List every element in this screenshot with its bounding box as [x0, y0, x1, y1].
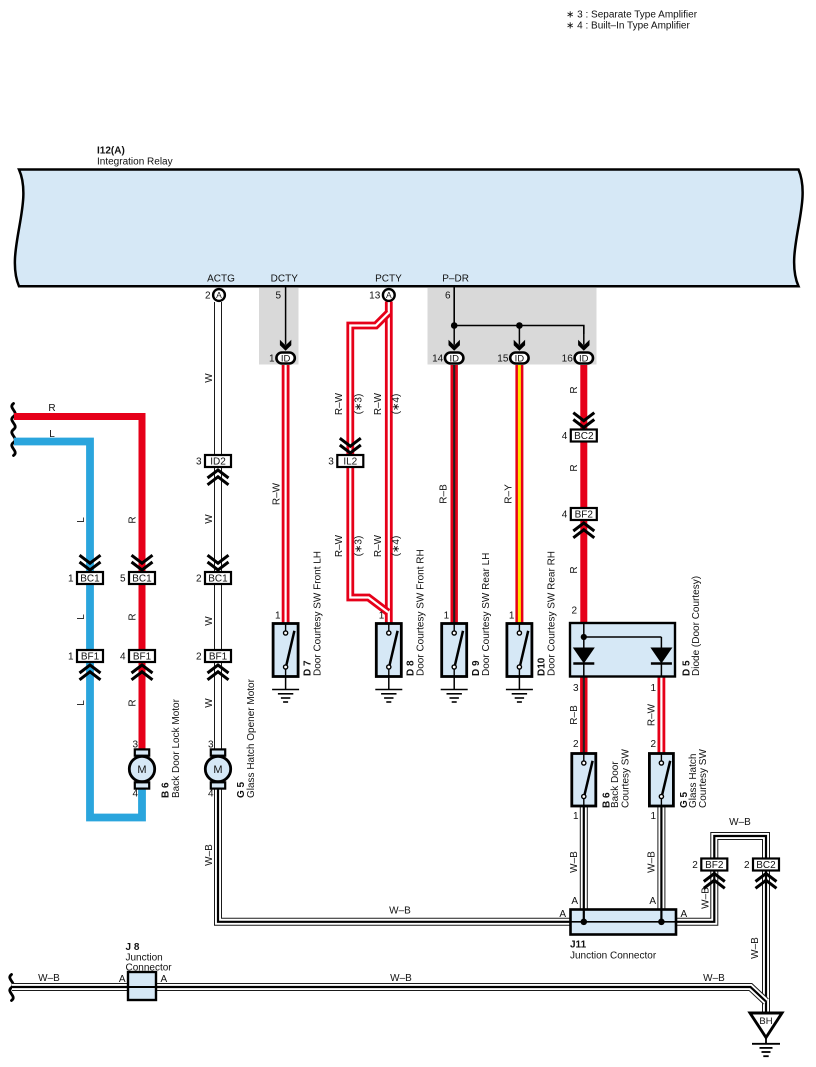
svg-text:W–B: W–B	[701, 887, 712, 909]
arrow into ID pin 16	[578, 326, 589, 351]
svg-text:L: L	[76, 614, 87, 620]
chevron above IL2	[340, 438, 361, 453]
svg-text:R–W: R–W	[334, 534, 345, 557]
svg-text:(∗3): (∗3)	[354, 394, 365, 415]
svg-text:16: 16	[562, 354, 574, 365]
shade box P-DR	[428, 288, 597, 365]
connector BC2 pin 2 (bottom)	[744, 859, 779, 872]
svg-text:BF1: BF1	[81, 652, 100, 663]
svg-text:A: A	[571, 896, 578, 907]
wire R-Y: ID pin 15 to door courtesy SW rear RH	[515, 365, 523, 624]
svg-text:M: M	[137, 764, 146, 776]
svg-text:∗ 3 : Separate Type Amplifier: ∗ 3 : Separate Type Amplifier	[566, 10, 698, 21]
wire W-B: bottom run through J8 to BH ground	[12, 987, 766, 1002]
svg-text:W–B: W–B	[647, 851, 658, 873]
svg-text:W: W	[204, 698, 215, 708]
svg-text:R: R	[48, 403, 55, 414]
svg-text:Door Courtesy SW Front RH: Door Courtesy SW Front RH	[416, 549, 427, 676]
svg-text:1: 1	[275, 611, 281, 622]
svg-text:1: 1	[68, 574, 74, 585]
svg-text:R–W: R–W	[373, 392, 384, 415]
svg-text:A: A	[161, 974, 168, 985]
wire: P-DR pin 6 distribution inside shade box	[454, 288, 584, 335]
svg-text:15: 15	[497, 354, 509, 365]
svg-text:W–B: W–B	[703, 973, 725, 984]
shade box DCTY	[259, 288, 299, 365]
svg-text:BF2: BF2	[705, 860, 724, 871]
ground below D9	[441, 677, 468, 703]
svg-text:3: 3	[208, 740, 214, 751]
wire L: left feed via BC1/BF1 to motor pin 4	[14, 442, 142, 818]
svg-text:W: W	[204, 514, 215, 524]
svg-text:A: A	[559, 909, 566, 920]
svg-text:L: L	[76, 700, 87, 706]
wire R-W (*3): branch via IL2 to door courtesy SW front RH	[350, 313, 389, 613]
wire R-W: diode pin 1 to glass hatch courtesy SW	[658, 677, 666, 754]
svg-text:5: 5	[275, 291, 281, 302]
connector IL2 pin 3	[328, 455, 363, 468]
svg-text:(∗3): (∗3)	[354, 536, 365, 557]
svg-text:ACTG: ACTG	[207, 274, 235, 285]
svg-text:5: 5	[120, 574, 126, 585]
svg-text:BH: BH	[759, 1016, 772, 1027]
switch G5 Glass Hatch Courtesy SW	[649, 754, 673, 807]
svg-text:BC1: BC1	[132, 574, 152, 585]
ground below D7	[272, 677, 299, 703]
svg-text:4: 4	[208, 789, 214, 800]
svg-text:Diode (Door Courtesy): Diode (Door Courtesy)	[691, 576, 702, 676]
wire W-B: glass hatch motor pin 4 to J11 pin A	[218, 790, 571, 922]
wire R-B: ID pin 14 to door courtesy SW rear LH	[451, 365, 458, 624]
chevron below BC2 pin 2	[756, 874, 777, 889]
svg-text:2: 2	[650, 739, 656, 750]
arrow into ID pin 15	[514, 326, 525, 351]
svg-text:PCTY: PCTY	[375, 274, 402, 285]
wire R: left feed to back door lock motor pin 3	[14, 417, 142, 749]
switch D7 Door Courtesy SW Front LH	[273, 624, 298, 677]
svg-text:A: A	[681, 909, 688, 920]
svg-text:A: A	[216, 290, 222, 300]
svg-text:I12(A): I12(A)	[97, 146, 125, 157]
wire break squiggle (bottom W-B)	[10, 975, 13, 1001]
svg-text:BF1: BF1	[133, 652, 152, 663]
svg-text:BF2: BF2	[575, 510, 594, 521]
svg-text:W–B: W–B	[750, 937, 761, 959]
chevron below BF2 pin 4	[573, 523, 594, 538]
wire R-W: ID pin 1 to door courtesy SW front LH	[282, 365, 290, 624]
svg-text:W–B: W–B	[38, 973, 60, 984]
connector circle A: relay pin 2 ACTG	[205, 289, 225, 301]
svg-text:3: 3	[573, 683, 579, 694]
svg-text:BC2: BC2	[574, 431, 594, 442]
svg-text:BF1: BF1	[209, 652, 228, 663]
svg-text:L: L	[76, 517, 87, 523]
svg-text:4: 4	[562, 431, 568, 442]
connector BC1 pin 1	[68, 572, 103, 585]
svg-text:14: 14	[432, 354, 444, 365]
svg-text:R: R	[128, 516, 139, 523]
switch D10 Door Courtesy SW Rear RH	[507, 624, 532, 677]
svg-text:R: R	[569, 464, 580, 471]
svg-text:R–B: R–B	[438, 484, 449, 504]
svg-text:P–DR: P–DR	[442, 274, 469, 285]
switch B6 Back Door Courtesy SW	[572, 754, 596, 807]
svg-text:1: 1	[573, 811, 579, 822]
wire W-B: J11 pin A to BF2 pin 2	[676, 872, 714, 922]
arrow into ID pin 14	[449, 326, 460, 351]
chevron above BC1 pin 2	[208, 555, 229, 570]
svg-text:ID: ID	[579, 353, 589, 364]
svg-text:1: 1	[68, 652, 74, 663]
svg-text:R–W: R–W	[647, 703, 658, 726]
svg-text:W–B: W–B	[389, 906, 411, 917]
chevron below BF1 pin 1	[80, 665, 101, 680]
svg-text:1: 1	[444, 611, 450, 622]
chevron below ID2	[208, 470, 229, 485]
wire break squiggle (R feed)	[12, 404, 15, 430]
svg-text:R–W: R–W	[334, 392, 345, 415]
chevron above BC1 pin 5	[132, 555, 153, 570]
connector ID2 pin 3	[196, 455, 231, 468]
svg-text:Door Courtesy SW Rear LH: Door Courtesy SW Rear LH	[481, 553, 492, 676]
svg-text:R: R	[569, 566, 580, 573]
svg-text:1: 1	[509, 611, 515, 622]
motor G5 Glass Hatch Opener Motor	[205, 749, 230, 788]
junction connector J11	[571, 910, 677, 935]
svg-text:2: 2	[205, 291, 211, 302]
svg-text:J11: J11	[570, 940, 587, 951]
wire W-B: glass hatch courtesy SW to J11	[657, 806, 665, 910]
svg-text:2: 2	[573, 739, 579, 750]
svg-text:L: L	[49, 429, 55, 440]
svg-text:BC2: BC2	[756, 860, 776, 871]
chevron above BC2 pin 4	[573, 413, 594, 428]
connector BF2 pin 4	[562, 508, 597, 521]
ground below D8	[375, 677, 402, 703]
svg-text:Integration Relay: Integration Relay	[97, 156, 173, 167]
connector BC2 pin 4	[562, 430, 597, 443]
switch D8 Door Courtesy SW Front RH	[376, 624, 401, 677]
svg-text:W–B: W–B	[729, 817, 751, 828]
svg-text:BC1: BC1	[208, 574, 228, 585]
svg-text:R–B: R–B	[569, 705, 580, 725]
connector BF1 pin 2	[196, 650, 231, 663]
connector BF1 pin 4	[120, 650, 155, 663]
svg-text:3: 3	[132, 740, 138, 751]
ground BH	[750, 1013, 782, 1056]
svg-text:A: A	[119, 974, 126, 985]
svg-text:ID: ID	[281, 353, 291, 364]
chevron below BF1 pin 2	[208, 665, 229, 680]
svg-text:(∗4): (∗4)	[391, 536, 402, 557]
switch D9 Door Courtesy SW Rear LH	[442, 624, 467, 677]
svg-text:Junction Connector: Junction Connector	[570, 951, 657, 962]
connector BC1 pin 2	[196, 572, 231, 585]
wire W-B: BC2 pin 2 down to BH ground	[762, 872, 770, 1014]
svg-text:R: R	[569, 386, 580, 393]
svg-text:W: W	[204, 373, 215, 383]
svg-text:2: 2	[692, 860, 698, 871]
svg-text:1: 1	[650, 811, 656, 822]
connector BF2 pin 2 (bottom)	[692, 859, 727, 872]
svg-text:1: 1	[650, 683, 656, 694]
svg-text:R–W: R–W	[373, 534, 384, 557]
svg-text:4: 4	[562, 510, 568, 521]
svg-text:2: 2	[196, 652, 202, 663]
svg-text:W–B: W–B	[569, 851, 580, 873]
svg-text:Connector: Connector	[126, 962, 173, 973]
svg-text:DCTY: DCTY	[271, 274, 299, 285]
connector BF1 pin 1	[68, 650, 103, 663]
connector circle A: relay pin 13 PCTY	[369, 289, 395, 301]
svg-text:R: R	[128, 613, 139, 620]
svg-text:∗ 4 : Built–In Type Amplifier: ∗ 4 : Built–In Type Amplifier	[566, 20, 690, 31]
relay I12(A) Integration Relay band	[15, 170, 803, 287]
svg-text:2: 2	[196, 574, 202, 585]
wire R-W (*4): PCTY pin 13 to door courtesy SW front RH	[385, 302, 393, 624]
svg-text:R–W: R–W	[271, 482, 282, 505]
arrow: DCTY pin 5 into ID pin 1	[280, 288, 291, 351]
motor B6 Back Door Lock Motor	[129, 749, 154, 788]
connector oval ID pin 16	[562, 353, 593, 365]
svg-text:W–B: W–B	[204, 844, 215, 866]
svg-text:13: 13	[369, 291, 381, 302]
svg-text:B 6: B 6	[160, 782, 171, 798]
svg-text:2: 2	[571, 606, 577, 617]
svg-text:6: 6	[445, 291, 451, 302]
svg-text:Glass Hatch Opener Motor: Glass Hatch Opener Motor	[246, 678, 257, 798]
wire break squiggle (L feed)	[12, 430, 15, 456]
svg-text:4: 4	[132, 789, 138, 800]
svg-text:BC1: BC1	[80, 574, 100, 585]
junction dot P-DR branch 2	[516, 322, 523, 329]
svg-text:M: M	[213, 764, 222, 776]
diode D5 Diode (Door Courtesy)	[570, 623, 675, 677]
svg-text:A: A	[386, 290, 392, 300]
svg-text:R: R	[128, 699, 139, 706]
connector BC1 pin 5	[120, 572, 155, 585]
wire W: ACTG pin 2 to glass hatch opener motor	[214, 302, 222, 749]
wire R-B: diode pin 3 to back door courtesy SW	[580, 677, 587, 754]
svg-text:W–B: W–B	[390, 973, 412, 984]
svg-text:(∗4): (∗4)	[391, 394, 402, 415]
svg-text:Courtesy SW: Courtesy SW	[620, 749, 631, 808]
wire R: ID pin 16 via BC2/BF2 to diode D5 pin 2	[580, 365, 587, 623]
wire W-B: BF2 to BC2 jumper loop	[714, 836, 766, 859]
svg-text:IL2: IL2	[343, 457, 357, 468]
chevron above BC1 pin 1	[80, 555, 101, 570]
chevron below BF1 pin 4	[132, 665, 153, 680]
svg-text:1: 1	[379, 611, 385, 622]
junction connector J8	[128, 972, 156, 1000]
svg-text:Door Courtesy SW Front LH: Door Courtesy SW Front LH	[312, 551, 323, 676]
svg-text:3: 3	[328, 457, 334, 468]
connector oval ID pin 14	[432, 353, 463, 365]
svg-text:Door Courtesy SW Rear RH: Door Courtesy SW Rear RH	[546, 551, 557, 676]
svg-text:W: W	[204, 616, 215, 626]
svg-text:R–Y: R–Y	[504, 484, 515, 504]
svg-text:1: 1	[269, 354, 275, 365]
svg-text:ID2: ID2	[210, 457, 226, 468]
wire W-B: back door courtesy SW to J11	[580, 806, 588, 910]
svg-text:2: 2	[744, 860, 750, 871]
svg-text:3: 3	[196, 457, 202, 468]
chevron below BF2 pin 2	[704, 874, 725, 889]
connector oval ID pin 15	[497, 353, 528, 365]
svg-text:A: A	[649, 896, 656, 907]
connector oval ID pin 1	[269, 353, 295, 365]
svg-text:Courtesy SW: Courtesy SW	[698, 749, 709, 808]
ground below D10	[506, 677, 533, 703]
svg-text:4: 4	[120, 652, 126, 663]
svg-text:ID: ID	[515, 353, 525, 364]
junction dot P-DR branch 1	[451, 322, 458, 329]
svg-text:Back Door Lock Motor: Back Door Lock Motor	[171, 698, 182, 798]
svg-text:ID: ID	[449, 353, 459, 364]
